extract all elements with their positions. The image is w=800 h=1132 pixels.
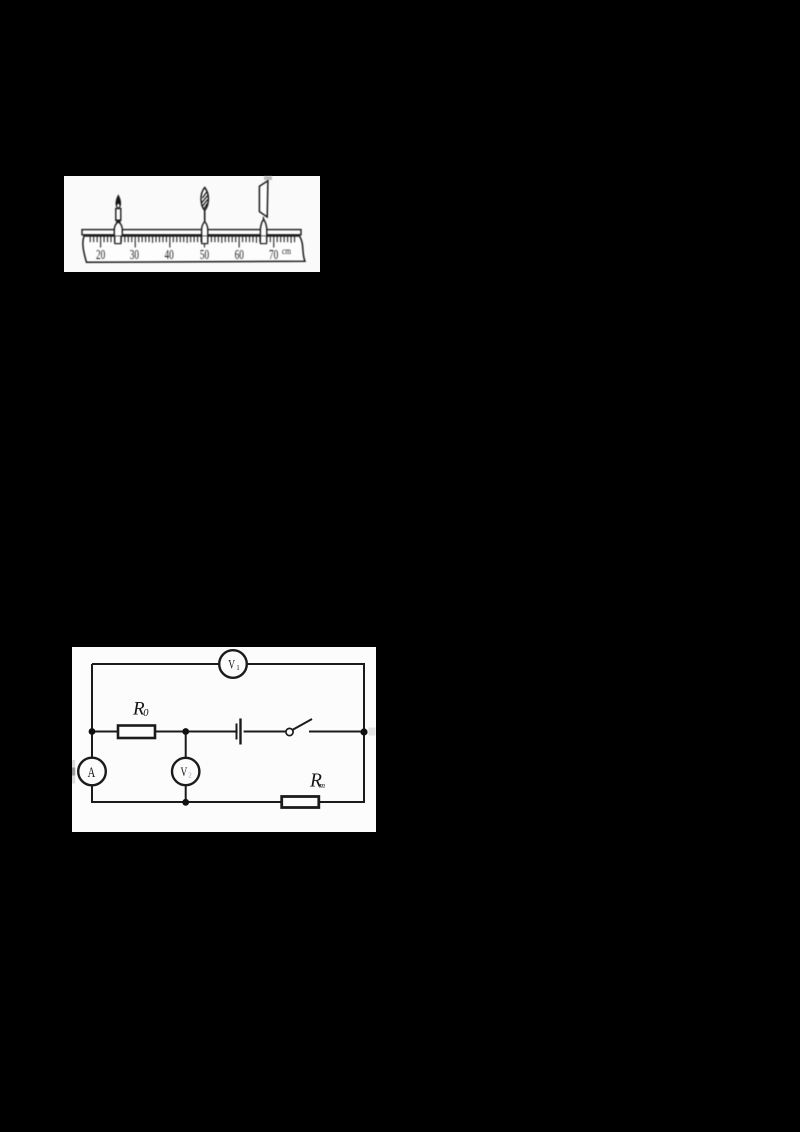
svg-text:V: V: [228, 657, 235, 672]
svg-text:50: 50: [200, 247, 209, 262]
svg-text:0: 0: [143, 708, 149, 719]
svg-text:m: m: [319, 781, 325, 790]
svg-text:60: 60: [235, 247, 244, 262]
svg-text:40: 40: [165, 247, 174, 262]
svg-text:2: 2: [188, 772, 192, 780]
svg-text:1: 1: [236, 664, 240, 672]
svg-text:30: 30: [130, 247, 139, 262]
svg-text:cm: cm: [282, 247, 291, 257]
svg-text:A: A: [88, 765, 96, 781]
svg-text:20: 20: [96, 247, 105, 262]
svg-text:V: V: [181, 764, 188, 779]
svg-text:70: 70: [269, 247, 278, 262]
